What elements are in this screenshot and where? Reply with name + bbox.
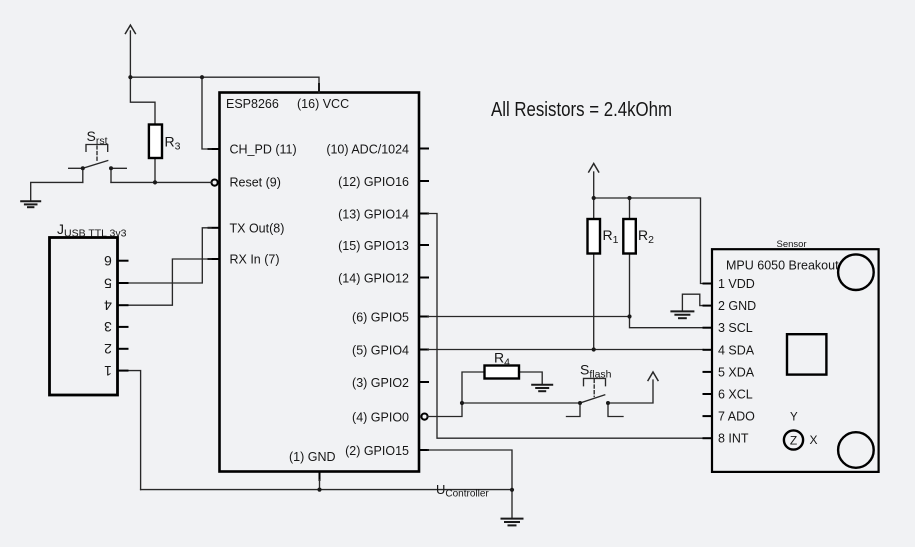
Srst actuator bracket: [86, 145, 108, 152]
USB pin stub 4: [118, 304, 128, 306]
ground symbol left: [21, 201, 40, 207]
svg-text:3 SCL: 3 SCL: [718, 321, 753, 335]
switch S_flash: [580, 378, 606, 403]
wire Srst left drop: [82, 168, 84, 182]
junction dot VCC2-R2: [627, 196, 631, 200]
junction dot R3-reset: [153, 180, 157, 184]
svg-text:CH_PD (11): CH_PD (11): [230, 143, 297, 157]
svg-text:UController: UController: [436, 482, 489, 500]
svg-text:5: 5: [104, 275, 112, 291]
pin stub TX Out: [209, 227, 220, 229]
svg-text:Z: Z: [790, 433, 797, 447]
wire VCC rail top: [130, 77, 319, 92]
svg-text:(4) GPIO0: (4) GPIO0: [352, 411, 409, 425]
svg-text:(5) GPIO4: (5) GPIO4: [352, 344, 409, 358]
wire bottom GND net: [141, 489, 512, 491]
svg-text:(10) ADC/1024: (10) ADC/1024: [326, 143, 409, 157]
wire R4 left feed: [462, 372, 485, 403]
pin stub GPIO16: [420, 180, 429, 182]
svg-text:(16) VCC: (16) VCC: [297, 97, 349, 111]
GPIO0 pin open circle: [421, 414, 427, 420]
Sflash actuator dashed link: [593, 380, 595, 397]
wire GPIO0 net: [428, 403, 580, 417]
pin stub GPIO13: [420, 244, 429, 246]
wire R1 top: [593, 198, 595, 219]
Srst actuator dashed link: [96, 146, 98, 162]
ground symbol MPU GND: [671, 311, 693, 318]
svg-text:1: 1: [104, 363, 112, 379]
junction dot GND-right: [510, 488, 514, 492]
wire Sflash to VCC arrow: [608, 380, 653, 403]
MPU mounting hole bottom right: [838, 432, 874, 468]
junction dot R1-SDA: [592, 347, 596, 351]
wire R2 top: [629, 198, 631, 219]
pin stub GPIO12: [420, 277, 429, 279]
ground symbol R4: [532, 385, 552, 392]
svg-text:2: 2: [104, 341, 112, 357]
wire RX net: [118, 259, 212, 305]
wire Sflash left L stub: [567, 403, 581, 417]
svg-text:(13) GPIO14: (13) GPIO14: [338, 208, 409, 222]
pin stub RX In: [209, 258, 220, 260]
pin stub GPIO5: [420, 316, 429, 318]
Srst contact dot right: [109, 166, 113, 170]
wire R4 right to ground: [519, 372, 542, 384]
MPU pin stub 1: [704, 283, 713, 285]
USB pin stub 3: [118, 326, 128, 328]
svg-text:(14) GPIO12: (14) GPIO12: [338, 272, 409, 286]
svg-text:R3: R3: [165, 134, 181, 153]
VCC arrow 1 head: [125, 25, 135, 33]
Sflash contact dot left: [578, 401, 582, 405]
pin stub ADC: [420, 148, 429, 150]
svg-text:4 SDA: 4 SDA: [718, 344, 755, 358]
wire GPIO4 to SDA: [428, 349, 704, 351]
MPU pin stub 4: [704, 349, 713, 351]
svg-text:(12) GPIO16: (12) GPIO16: [338, 175, 409, 189]
Sflash lever: [580, 395, 605, 403]
wire CH_PD feed: [202, 77, 211, 149]
svg-text:(2) GPIO15: (2) GPIO15: [345, 444, 409, 458]
resistor R2: [623, 219, 636, 254]
junction dot VCC2-R1: [592, 196, 596, 200]
wire TX net: [118, 228, 212, 283]
svg-text:JUSB TTL 3v3: JUSB TTL 3v3: [57, 221, 127, 240]
svg-text:3: 3: [104, 319, 112, 335]
svg-text:6: 6: [104, 253, 112, 269]
USB pin stub 6: [118, 260, 128, 262]
Sflash actuator bracket: [584, 378, 606, 385]
VCC arrow 2 head: [589, 164, 599, 173]
svg-text:Sensor: Sensor: [777, 239, 807, 250]
svg-text:(15) GPIO13: (15) GPIO13: [338, 239, 409, 253]
Reset pin open circle: [212, 180, 218, 186]
svg-text:Sflash: Sflash: [580, 362, 612, 381]
svg-text:4: 4: [104, 298, 112, 314]
wire VCC1 arrow stem: [129, 31, 131, 77]
USB TTL connector J1 body: [50, 238, 118, 396]
wire GPIO14 to INT: [428, 214, 704, 439]
USB pin stub 5: [118, 282, 128, 284]
wire GPIO5 to R2: [428, 316, 630, 318]
MPU pin stub 7: [704, 415, 713, 417]
svg-text:(1) GND: (1) GND: [289, 450, 336, 464]
pin stub GPIO2: [420, 381, 429, 383]
wire USB pin1 down: [118, 371, 141, 490]
wire R3 bottom: [154, 158, 156, 182]
wire R2 bottom to SCL: [630, 254, 704, 328]
svg-text:TX Out(8): TX Out(8): [230, 222, 285, 236]
MPU 6050 breakout body: [712, 249, 879, 472]
junction dot GPIO0-R4: [460, 401, 464, 405]
VCC arrow 3 head: [648, 372, 658, 381]
pin stub CH_PD: [209, 148, 220, 150]
USB pin stub 1: [118, 370, 128, 372]
svg-text:(3) GPIO2: (3) GPIO2: [352, 376, 409, 390]
wire MPU GND jog: [682, 294, 703, 311]
Srst lever: [83, 161, 108, 169]
wire VCC2 arrow stem: [593, 172, 595, 198]
svg-text:Reset (9): Reset (9): [230, 176, 281, 190]
wire GPIO15 net: [428, 450, 512, 490]
Sflash contact dot right: [606, 401, 610, 405]
resistor R3: [149, 125, 162, 159]
svg-text:8 INT: 8 INT: [718, 432, 749, 446]
wire R1 bottom to SDA: [593, 254, 595, 350]
pin stub GPIO14: [420, 213, 429, 215]
wire R3 top feed: [130, 77, 155, 124]
pin stub GND bottom: [319, 472, 321, 481]
MPU pin stub 6: [704, 393, 713, 395]
svg-text:X: X: [810, 433, 818, 447]
junction dot R2-GPIO5: [627, 314, 631, 318]
MPU pin stub 5: [704, 371, 713, 373]
junction dot rail-left: [128, 75, 132, 79]
svg-text:7 ADO: 7 ADO: [718, 410, 755, 424]
junction dot rail-chpd: [200, 75, 204, 79]
pin stub GPIO4: [420, 349, 429, 351]
wire VCC2 rail: [594, 198, 704, 284]
svg-text:R2: R2: [638, 227, 654, 246]
svg-text:All Resistors = 2.4kOhm: All Resistors = 2.4kOhm: [491, 99, 672, 121]
resistor R4: [485, 366, 520, 379]
USB pin stub 2: [118, 348, 128, 350]
junction dot GND-chip: [317, 488, 321, 492]
Srst contact dot left: [81, 166, 85, 170]
wire switch left to ground: [31, 182, 83, 201]
svg-text:R1: R1: [603, 227, 619, 246]
ground symbol bottom center: [502, 519, 523, 526]
svg-text:MPU 6050 Breakout: MPU 6050 Breakout: [726, 259, 839, 273]
wire GND to ground symbol: [511, 490, 513, 518]
pin stub VCC top: [318, 84, 320, 93]
resistor R1: [588, 219, 601, 254]
MPU pin stub 8: [704, 437, 713, 439]
wire chip GND drop: [319, 480, 321, 490]
wire reset net: [111, 181, 212, 183]
svg-text:RX In (7): RX In (7): [230, 253, 280, 267]
pin stub GPIO15: [420, 449, 429, 451]
MPU mounting hole top right: [838, 254, 874, 290]
svg-text:5 XDA: 5 XDA: [718, 366, 755, 380]
Srst right terminal stub: [111, 167, 126, 169]
svg-text:2 GND: 2 GND: [718, 299, 756, 313]
MPU chip square: [787, 334, 826, 374]
MPU axis Z circle: [784, 430, 803, 449]
MPU pin stub 2: [704, 305, 713, 307]
wire Srst right drop: [110, 168, 112, 182]
svg-text:6 XCL: 6 XCL: [718, 388, 753, 402]
ESP8266 U1 body: [220, 93, 420, 472]
svg-text:1 VDD: 1 VDD: [718, 277, 755, 291]
ESP8266 pin stubs left: [209, 84, 429, 480]
Srst left terminal stub: [69, 167, 83, 169]
MPU pin stub 3: [704, 327, 713, 329]
svg-text:Y: Y: [790, 412, 798, 424]
svg-text:ESP8266: ESP8266: [226, 97, 279, 111]
switch S_rst: [69, 145, 127, 169]
svg-text:(6) GPIO5: (6) GPIO5: [352, 311, 409, 325]
wire Sflash right L stub: [608, 403, 623, 417]
